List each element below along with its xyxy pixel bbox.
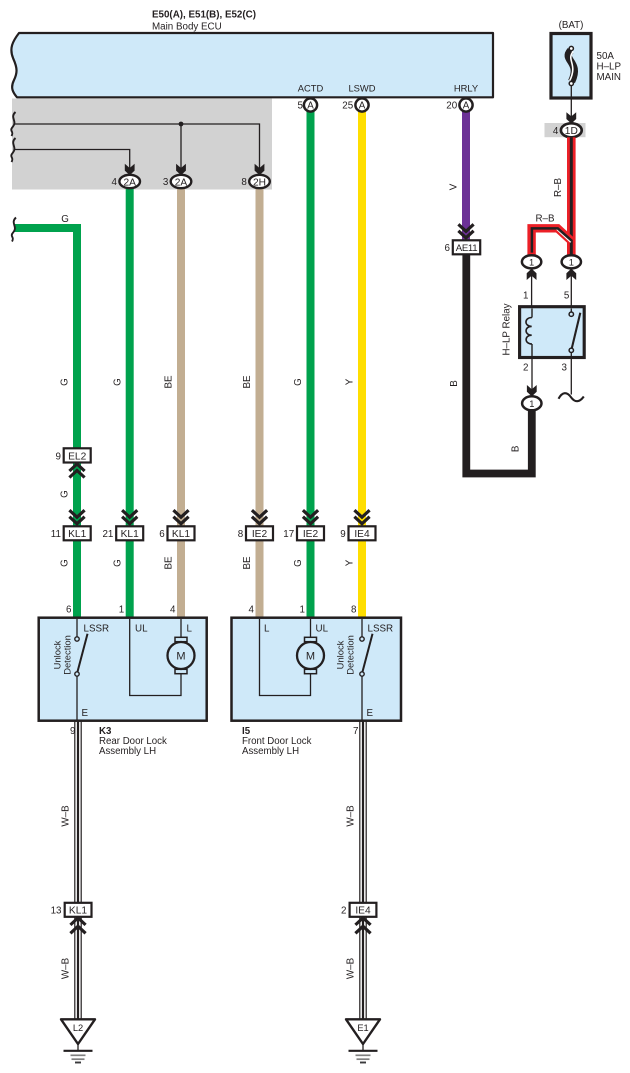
svg-text:W–B: W–B <box>61 805 72 827</box>
svg-text:1: 1 <box>119 605 124 616</box>
connector oval 1 right above relay <box>562 255 581 268</box>
svg-text:8: 8 <box>241 177 247 188</box>
connector 8-IE2 <box>238 526 273 540</box>
connector oval 1 left above relay <box>522 255 541 268</box>
svg-text:Assembly LH: Assembly LH <box>99 746 156 757</box>
wire V HRLY <box>462 108 470 240</box>
svg-text:11: 11 <box>51 529 61 540</box>
pass-through chevrons above 6-KL1 <box>173 510 188 524</box>
svg-text:E: E <box>82 708 89 719</box>
wire: gray bus branch to 3-2A <box>180 124 182 170</box>
connector 2-IE4 <box>341 903 376 917</box>
wire W-B left upper segment <box>75 722 81 903</box>
K3 name text <box>99 726 167 757</box>
svg-text:G: G <box>293 378 304 386</box>
connector oval 4-1D <box>553 123 582 137</box>
svg-text:L: L <box>264 624 270 635</box>
connector 17-IE2 <box>283 526 324 540</box>
K3 wire L to motor <box>180 619 182 638</box>
svg-text:4: 4 <box>553 126 559 137</box>
ground L2 <box>61 1019 95 1062</box>
I5 label Unlock Detection <box>335 635 356 675</box>
svg-text:BE: BE <box>242 375 253 389</box>
svg-text:21: 21 <box>102 529 113 540</box>
svg-text:HRLY: HRLY <box>454 83 479 94</box>
svg-text:H–LP Relay: H–LP Relay <box>502 303 513 355</box>
svg-text:A: A <box>307 101 314 112</box>
svg-text:6: 6 <box>66 605 72 616</box>
pass-through chevrons below 13-KL1 <box>70 918 85 933</box>
svg-text:M: M <box>176 651 185 663</box>
connector 11-KL1 <box>51 526 91 540</box>
svg-text:LSSR: LSSR <box>368 624 394 635</box>
label 50A H-LP MAIN <box>597 51 622 83</box>
wire G column c2 from 2A <box>126 186 134 617</box>
svg-text:6: 6 <box>445 243 451 254</box>
svg-text:IE4: IE4 <box>355 906 371 917</box>
continuation squiggle below relay pin3 <box>559 393 584 401</box>
svg-text:H–LP: H–LP <box>597 62 622 73</box>
svg-text:W–B: W–B <box>346 957 357 979</box>
svg-text:5: 5 <box>564 291 570 302</box>
pass-through chevrons above AE11 <box>458 224 473 238</box>
I5 wire L to motor <box>260 619 311 696</box>
K3 label Unlock Detection <box>52 635 73 675</box>
svg-text:Detection: Detection <box>62 635 73 675</box>
svg-text:UL: UL <box>316 624 329 635</box>
pass-through chevrons above 8-IE2 <box>252 510 267 524</box>
svg-text:50A: 50A <box>597 51 615 62</box>
break squiggle 1 <box>11 112 15 136</box>
svg-text:2H: 2H <box>253 177 266 188</box>
svg-text:R–B: R–B <box>553 178 564 198</box>
svg-text:2A: 2A <box>175 177 188 188</box>
pass-through chevrons above 9-IE4 <box>354 510 369 524</box>
svg-text:Main Body ECU: Main Body ECU <box>152 22 222 33</box>
svg-text:UL: UL <box>135 624 148 635</box>
svg-text:G: G <box>293 559 304 567</box>
arrow into 8-2H <box>255 164 265 175</box>
ground E1 <box>346 1019 380 1062</box>
svg-text:1: 1 <box>300 605 305 616</box>
svg-text:G: G <box>60 559 71 567</box>
wire BE column c3 from 2A <box>177 186 185 617</box>
svg-text:E: E <box>367 708 374 719</box>
svg-text:KL1: KL1 <box>172 529 190 540</box>
arrow into oval 1 below relay <box>527 385 537 396</box>
svg-text:LSSR: LSSR <box>84 624 110 635</box>
svg-text:IE2: IE2 <box>252 529 268 540</box>
svg-text:G: G <box>61 214 69 225</box>
svg-text:B: B <box>511 445 522 452</box>
door lock assembly I5 box <box>232 618 402 721</box>
wire BE column c4 from 2H <box>256 186 264 617</box>
K3 unlock detection switch SW1 <box>75 619 88 720</box>
svg-text:Detection: Detection <box>345 635 356 675</box>
arrow into 4-2A <box>125 164 135 175</box>
fuse element F1 <box>568 46 574 85</box>
svg-text:BE: BE <box>164 375 175 389</box>
svg-text:3: 3 <box>562 362 568 373</box>
svg-text:G: G <box>112 559 123 567</box>
svg-text:E50(A), E51(B), E52(C): E50(A), E51(B), E52(C) <box>152 10 256 21</box>
svg-text:A: A <box>359 101 366 112</box>
svg-text:W–B: W–B <box>346 805 357 827</box>
wire R-B main vertical <box>567 137 576 255</box>
pin 25 circle A LSWD <box>342 83 375 112</box>
wire relay pin1 up with arrow <box>531 275 533 306</box>
break squiggle 2 <box>11 138 15 162</box>
svg-text:2: 2 <box>523 362 528 373</box>
battery fuse box 50A H-LP MAIN <box>551 20 591 98</box>
svg-text:17: 17 <box>283 529 294 540</box>
wire Y column c6 LSWD <box>358 108 366 617</box>
svg-text:1: 1 <box>529 257 534 267</box>
wire fuse to 1D <box>570 86 572 118</box>
pass-through chevrons above 17-IE2 <box>303 510 318 524</box>
svg-text:5: 5 <box>298 101 304 112</box>
svg-text:4: 4 <box>112 177 118 188</box>
K3 wire UL to motor <box>130 619 181 696</box>
svg-text:6: 6 <box>159 529 165 540</box>
svg-text:R–B: R–B <box>535 214 555 225</box>
svg-text:Y: Y <box>345 378 356 385</box>
relay switch contact <box>569 309 580 395</box>
svg-text:9: 9 <box>55 451 60 462</box>
connector 9-EL2 <box>55 448 90 462</box>
break squiggle on G wire <box>12 218 16 242</box>
pass-through chevrons below EL2 <box>69 464 84 478</box>
K3 motor M1 <box>168 637 195 673</box>
svg-text:BE: BE <box>242 556 253 570</box>
svg-text:2: 2 <box>341 906 346 917</box>
svg-text:MAIN: MAIN <box>597 72 622 83</box>
svg-text:1: 1 <box>523 291 528 302</box>
svg-text:W–B: W–B <box>61 957 72 979</box>
svg-text:IE4: IE4 <box>354 529 370 540</box>
connector 6-KL1 <box>159 526 194 540</box>
relay coil L1 <box>526 309 532 357</box>
I5 name text <box>242 726 312 757</box>
svg-text:E1: E1 <box>357 1023 368 1033</box>
svg-text:EL2: EL2 <box>68 451 86 462</box>
ECU internal bus shaded region <box>12 99 272 190</box>
svg-text:8: 8 <box>351 605 357 616</box>
door lock assembly K3 box <box>39 618 207 721</box>
svg-text:20: 20 <box>446 101 457 112</box>
svg-text:(BAT): (BAT) <box>559 20 584 31</box>
svg-text:ACTD: ACTD <box>298 83 324 94</box>
connector oval 1 below relay <box>522 396 541 410</box>
I5 wire UL to motor <box>310 619 312 638</box>
svg-text:1: 1 <box>569 257 574 267</box>
wire B thick black from AE11 to relay oval <box>466 254 532 473</box>
pass-through chevrons above 21-KL1 <box>122 510 137 524</box>
svg-text:1D: 1D <box>565 126 578 137</box>
svg-text:2A: 2A <box>123 177 136 188</box>
svg-text:G: G <box>60 490 71 498</box>
connector oval 4-2A <box>112 175 140 189</box>
arrow into 1D <box>566 112 576 123</box>
pass-through chevrons below 2-IE4 <box>355 918 370 933</box>
svg-text:V: V <box>449 183 460 190</box>
arrow up into right oval 1 <box>566 269 576 280</box>
svg-text:LSWD: LSWD <box>348 83 375 94</box>
connector oval 8-2H <box>241 175 269 189</box>
svg-text:13: 13 <box>51 906 62 917</box>
svg-text:AE11: AE11 <box>456 243 478 254</box>
pin 5 circle A ACTD <box>298 83 324 112</box>
svg-text:KL1: KL1 <box>121 529 139 540</box>
svg-text:9: 9 <box>340 529 345 540</box>
svg-text:L: L <box>187 624 193 635</box>
wire relay pin5 up with arrow <box>570 275 572 312</box>
arrow up into left oval 1 <box>527 269 537 280</box>
wire relay pin2 down <box>531 356 533 390</box>
svg-text:Y: Y <box>345 559 356 566</box>
svg-text:8: 8 <box>238 529 244 540</box>
wire G column c1 with corner <box>14 228 77 617</box>
svg-text:M: M <box>306 651 315 663</box>
I5 motor M2 <box>297 637 324 673</box>
connector 6-AE11 <box>445 240 481 254</box>
svg-text:7: 7 <box>353 726 358 737</box>
wire: gray bus line 1 to 2H <box>15 124 260 170</box>
svg-text:4: 4 <box>170 605 176 616</box>
pass-through chevrons above 11-KL1 <box>69 510 84 524</box>
node junction dot <box>179 122 184 127</box>
connector 21-KL1 <box>102 526 143 540</box>
svg-text:G: G <box>112 378 123 386</box>
svg-text:IE2: IE2 <box>303 529 319 540</box>
svg-text:L2: L2 <box>73 1023 83 1033</box>
svg-text:Assembly LH: Assembly LH <box>242 746 299 757</box>
svg-text:KL1: KL1 <box>69 906 87 917</box>
svg-text:4: 4 <box>249 605 255 616</box>
wire: gray bus line 2 to 4-2A <box>15 150 130 170</box>
wire G column c5 ACTD <box>307 108 315 617</box>
svg-text:KL1: KL1 <box>68 529 86 540</box>
label Main Body ECU <box>152 10 256 33</box>
connector 9-IE4 <box>340 526 375 540</box>
wire R-B branch to left oval <box>532 228 572 255</box>
connector 13-KL1 <box>51 903 92 917</box>
H-LP relay K1 box <box>520 307 585 358</box>
wire W-B right upper segment <box>360 722 366 903</box>
pin 20 circle A HRLY <box>446 83 479 112</box>
svg-text:G: G <box>60 378 71 386</box>
svg-text:1: 1 <box>529 399 534 409</box>
svg-text:B: B <box>449 380 460 387</box>
Main Body ECU box U1 <box>11 33 493 97</box>
svg-text:25: 25 <box>342 101 353 112</box>
svg-text:BE: BE <box>164 556 175 570</box>
svg-text:A: A <box>463 101 470 112</box>
wire W-B left lower segment <box>75 917 81 1019</box>
arrow into 3-2A <box>176 164 186 175</box>
connector oval 3-2A <box>163 175 191 189</box>
connector 1D shaded strip <box>545 123 586 137</box>
I5 unlock detection switch SW2 <box>360 619 373 720</box>
wire W-B right lower segment <box>360 917 366 1019</box>
svg-text:3: 3 <box>163 177 169 188</box>
